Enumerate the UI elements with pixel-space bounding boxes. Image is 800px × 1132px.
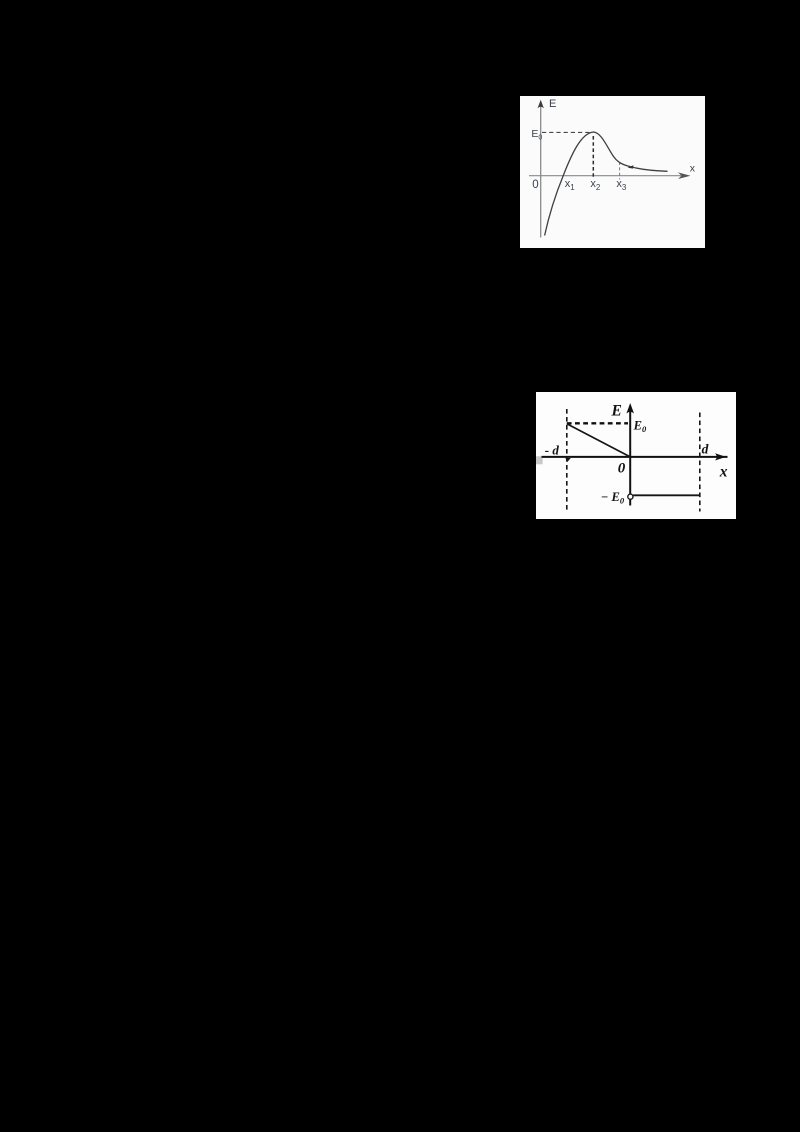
x-axis [542,455,728,457]
right dashed vertical at d [699,412,701,511]
dashed horizontal at E0 [567,422,628,424]
svg-text:- d: - d [545,442,560,457]
x-axis [529,175,687,177]
dashed vertical at x3 [619,162,621,180]
figure 2: piecewise E field graph [536,392,736,519]
figure 1 white background [520,96,705,248]
diagonal segment from (-d,E0) to origin [567,423,630,456]
svg-text:0: 0 [618,460,626,476]
svg-text:E: E [549,98,556,110]
left dashed vertical at -d [566,409,568,511]
open circle at (0,-E0) [628,494,633,499]
svg-text:0: 0 [532,179,538,191]
y-axis arrowhead [538,100,544,109]
y-axis arrowhead [626,403,634,414]
gray smudge at left edge [536,456,543,464]
dashed line E0 level [542,131,592,133]
small arrowhead on curve [628,165,634,168]
svg-text:d: d [702,441,709,456]
figure 1: E vs x curve graph [520,96,705,248]
svg-text:E: E [611,402,622,419]
segment at -E0 from origin circle to d [633,494,700,496]
small triangle at -d on axis [565,458,570,462]
x-axis arrowhead [678,172,691,179]
dashed vertical at x2 [592,136,594,179]
y-axis [629,407,631,505]
figure 2 white background [536,392,736,519]
curve E(x) [545,132,668,236]
svg-text:x: x [719,463,728,480]
y-axis [540,104,542,238]
x-axis arrowhead [715,453,726,460]
svg-text:x: x [690,163,696,175]
